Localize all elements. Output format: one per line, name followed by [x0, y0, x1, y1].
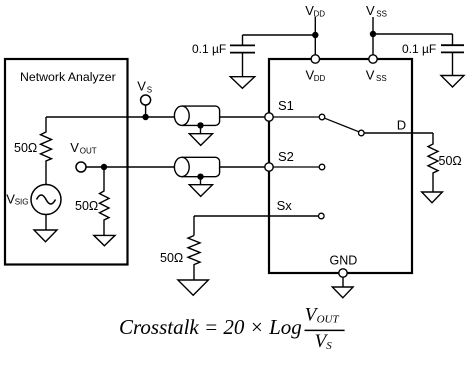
svg-text:S: S: [147, 85, 152, 94]
ground (C1): [230, 77, 254, 89]
pin V_DD: [311, 55, 319, 63]
wire S2 row: [86, 166, 266, 168]
ground (coax2): [189, 185, 212, 197]
switch pole: [359, 130, 365, 136]
wire pole to D: [364, 132, 433, 134]
svg-text:50Ω: 50Ω: [160, 251, 183, 265]
svg-text:50Ω: 50Ω: [439, 154, 462, 168]
pin V_SS: [369, 55, 377, 63]
ground (GND pin): [332, 287, 353, 298]
svg-text:SIG: SIG: [15, 197, 29, 206]
wire GND stem: [342, 277, 344, 287]
switch throw Sx contact: [319, 213, 325, 219]
resistor 50 ohm (Sx termination): [188, 236, 200, 281]
ground (V_OUT shunt): [94, 235, 115, 245]
coax cable 1: [174, 106, 219, 125]
svg-text:V: V: [366, 67, 375, 82]
svg-text:SS: SS: [376, 74, 387, 83]
pin GND: [339, 269, 347, 277]
equation fraction bar: [305, 329, 345, 331]
svg-text:Crosstalk = 20 × Log: Crosstalk = 20 × Log: [119, 315, 302, 339]
switch throw S2 contact: [319, 164, 325, 170]
node junction coax1 shield: [197, 122, 203, 128]
node junction V_DD: [312, 32, 318, 38]
wire coax1 ground stem: [200, 125, 202, 133]
wire Sx row: [194, 215, 319, 217]
resistor 50 ohm (V_OUT shunt): [100, 167, 110, 235]
switch arm: [325, 118, 359, 132]
resistor R 50 ohm (source series): [41, 117, 52, 184]
resistor 50 ohm (D termination): [428, 133, 438, 192]
svg-text:50Ω: 50Ω: [75, 199, 98, 213]
node junction V_OUT: [101, 164, 107, 170]
svg-text:OUT: OUT: [80, 147, 97, 156]
Network Analyzer box: [5, 59, 128, 265]
pin S2: [265, 163, 273, 171]
wire Sx down: [193, 216, 195, 236]
supply V_SS net: [373, 17, 453, 59]
coax cable 2: [174, 157, 219, 176]
svg-text:DD: DD: [314, 74, 326, 83]
source V_SIG: [31, 185, 61, 231]
wire V_S stem: [145, 105, 147, 117]
ground (coax1): [189, 134, 212, 146]
ground (Sx termination): [178, 280, 209, 295]
svg-text:S2: S2: [278, 149, 294, 164]
wire S1 row: [46, 116, 266, 118]
ground (V_SIG): [34, 230, 57, 242]
capacitor C2 0.1uF: [441, 34, 464, 76]
svg-text:V: V: [366, 3, 375, 18]
ground (C2): [441, 76, 464, 88]
wire coax2 ground stem: [200, 177, 202, 185]
capacitor C1 0.1uF: [230, 35, 255, 77]
svg-text:GND: GND: [330, 254, 358, 268]
terminal V_S: [141, 95, 151, 105]
pin S1: [265, 113, 273, 121]
node junction V_SS: [370, 31, 376, 37]
wire S2 stub: [273, 166, 319, 168]
node junction V_S: [142, 114, 148, 120]
svg-text:OUT: OUT: [317, 314, 340, 326]
ground (D termination): [422, 192, 443, 203]
mux IC box U1: [269, 59, 412, 273]
svg-text:S1: S1: [278, 98, 294, 113]
svg-text:DD: DD: [314, 10, 326, 19]
terminal V_OUT: [76, 162, 86, 172]
svg-text:V: V: [70, 140, 79, 155]
svg-text:SS: SS: [376, 10, 387, 19]
svg-text:Network Analyzer: Network Analyzer: [20, 70, 116, 84]
svg-text:V: V: [137, 79, 146, 94]
svg-text:0.1 µF: 0.1 µF: [192, 42, 226, 56]
svg-text:0.1 µF: 0.1 µF: [402, 42, 436, 56]
svg-text:Sx: Sx: [277, 198, 293, 213]
svg-text:S: S: [326, 340, 332, 352]
switch throw S1 contact: [319, 114, 325, 120]
supply V_DD net: [243, 17, 316, 59]
node junction coax2 shield: [197, 173, 203, 179]
svg-text:50Ω: 50Ω: [14, 141, 37, 155]
wire S1 stub: [273, 116, 319, 118]
svg-text:D: D: [397, 117, 406, 132]
